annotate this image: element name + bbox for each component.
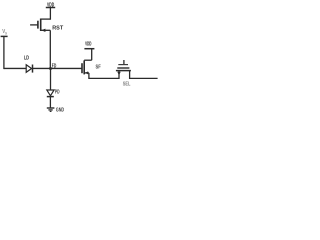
svg-text:RST: RST: [52, 25, 63, 31]
svg-text:SF: SF: [96, 64, 102, 70]
svg-text:PD: PD: [55, 90, 60, 96]
svg-text:FD: FD: [52, 64, 57, 70]
svg-text:Vs: Vs: [2, 29, 7, 35]
svg-text:LD: LD: [24, 55, 29, 61]
svg-text:SEL: SEL: [123, 81, 131, 87]
svg-text:VDD: VDD: [85, 41, 91, 47]
svg-text:GND: GND: [56, 108, 64, 114]
